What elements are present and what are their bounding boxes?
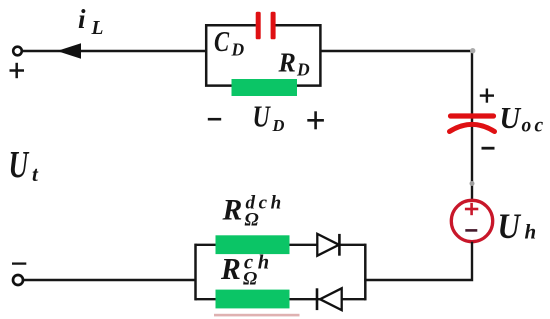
svg-text:U: U (500, 101, 522, 135)
svg-text:D: D (272, 116, 285, 135)
wire Uh bottom to merge bar (364, 242, 472, 280)
artifact faint red underline (214, 314, 300, 317)
label iL (78, 4, 104, 39)
node mid-right (470, 181, 475, 186)
wire bottom external (23, 279, 196, 281)
label plus of Uoc (480, 89, 494, 103)
diode D2 (charge, pointing left) (317, 288, 342, 310)
svg-text:D: D (231, 40, 245, 60)
svg-text:C: C (214, 25, 230, 57)
wire right vertical through Uoc (471, 51, 473, 201)
plus inside Uh (465, 203, 478, 215)
terminal top-left (13, 47, 22, 56)
svg-text:U: U (9, 144, 30, 187)
label minus of Uoc (482, 147, 495, 150)
svg-text:i: i (78, 4, 86, 34)
node top-right (470, 48, 475, 53)
diode D1 (discharge, pointing right) (317, 234, 339, 256)
label UD (253, 99, 285, 135)
merge bar left (194, 244, 197, 301)
wire top-left horizontal (22, 50, 206, 52)
svg-text:D: D (296, 60, 310, 80)
label Ut (9, 144, 40, 187)
label Uoc (500, 101, 547, 137)
RC box outline (206, 25, 320, 85)
capacitor CD plates (256, 12, 276, 40)
svg-text:R: R (221, 195, 242, 227)
minus inside Uh (465, 229, 477, 232)
label minus (bottom-left polarity) (12, 262, 26, 264)
label minus of UD (208, 118, 221, 121)
label CD (214, 25, 245, 59)
label RD (278, 47, 310, 80)
label R dch (221, 193, 284, 231)
wire box to right node (320, 50, 472, 52)
svg-text:h: h (525, 220, 537, 244)
current arrow iL (57, 43, 81, 58)
wire top branch (196, 244, 366, 246)
label R ch (220, 252, 274, 290)
svg-text:Ω: Ω (245, 210, 259, 231)
svg-text:U: U (498, 207, 522, 247)
resistor RD (232, 79, 298, 96)
svg-text:L: L (91, 18, 104, 39)
svg-text:R: R (278, 47, 296, 78)
label plus of UD (307, 111, 324, 129)
svg-text:oc: oc (522, 116, 547, 137)
svg-text:U: U (253, 99, 272, 134)
merge bar right (364, 244, 367, 301)
svg-text:Ω: Ω (243, 269, 257, 290)
svg-text:R: R (220, 253, 241, 286)
source Uh (451, 200, 492, 241)
label + (top-left polarity) (10, 63, 25, 78)
capacitor Uoc curved plate (450, 124, 495, 131)
label Uh (498, 207, 537, 247)
resistor R ch (216, 290, 290, 309)
wire bottom branch (196, 298, 366, 300)
terminal bottom-left (13, 275, 23, 285)
resistor R dch (216, 235, 290, 254)
capacitor Uoc top plate (451, 113, 494, 118)
